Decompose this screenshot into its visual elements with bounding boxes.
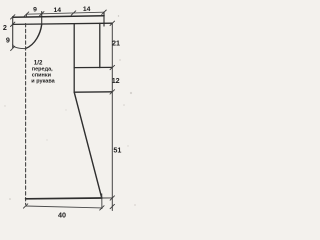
svg-text:2: 2 [3,23,7,32]
svg-text:9: 9 [6,36,10,45]
svg-text:40: 40 [58,211,66,220]
svg-text:21: 21 [112,38,120,47]
svg-text:14: 14 [83,6,91,13]
svg-text:12: 12 [112,76,120,85]
svg-text:14: 14 [54,7,62,14]
svg-text:9: 9 [33,7,37,14]
svg-text:и рукава: и рукава [31,79,55,85]
svg-text:1/2: 1/2 [34,60,43,67]
svg-text:51: 51 [113,146,121,155]
